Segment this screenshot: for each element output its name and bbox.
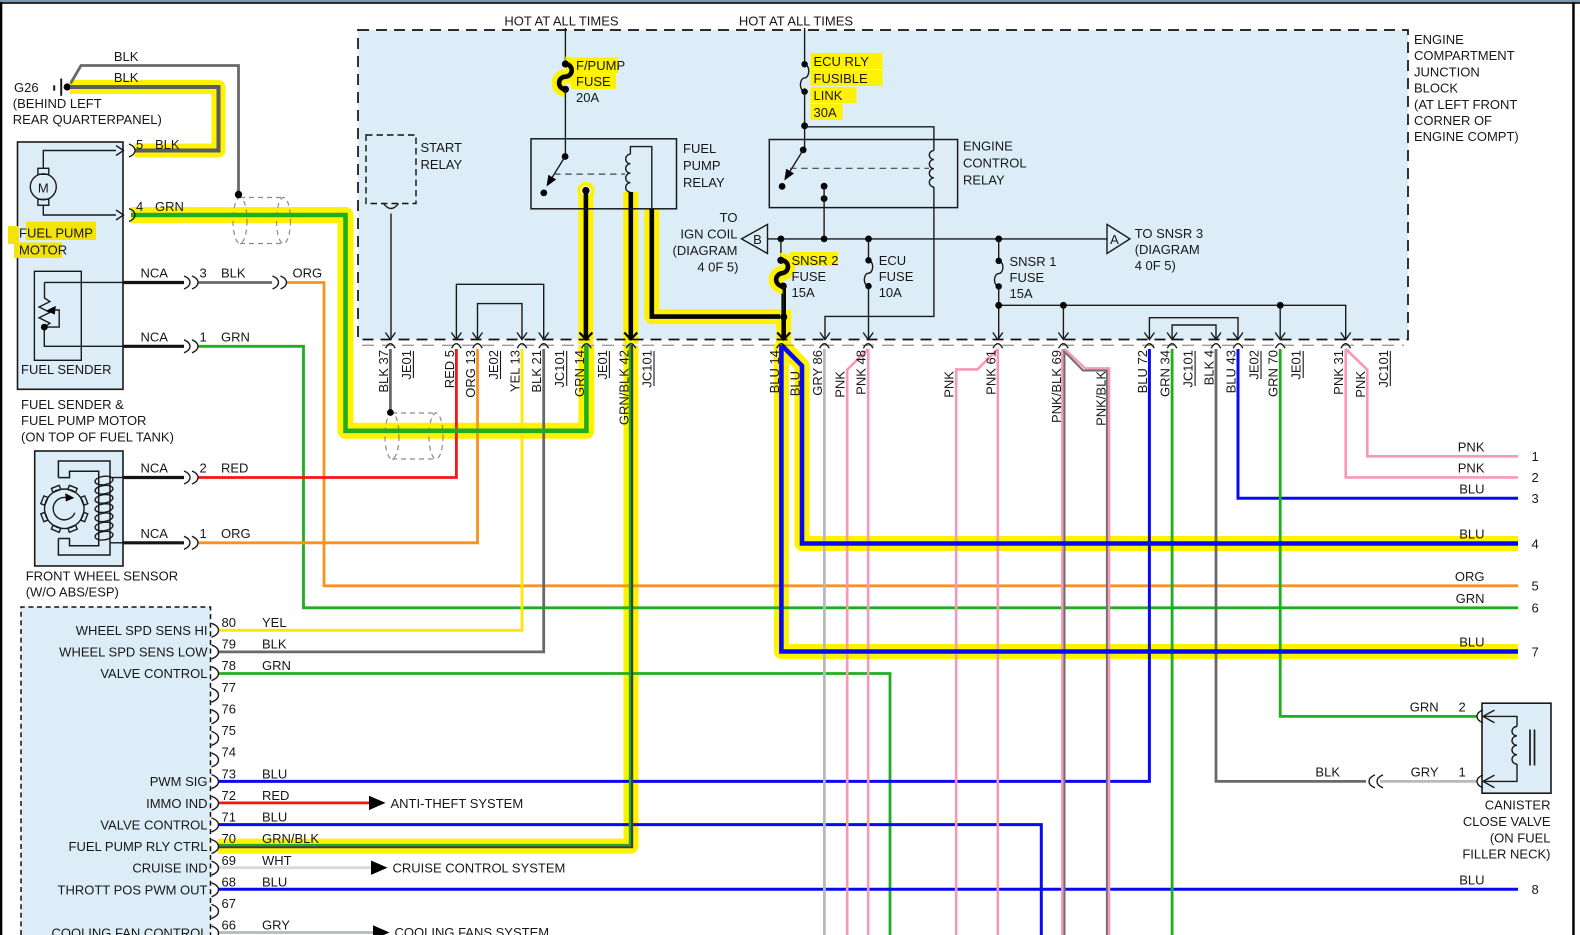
relay coil thick wire to connector 42 [628, 192, 633, 340]
svg-text:JE02: JE02 [486, 350, 501, 380]
BLU wire ECM pin68 to output 8 [218, 888, 1518, 891]
svg-text:JE01: JE01 [399, 350, 414, 380]
highlight text FUEL PUMP MOTOR [8, 226, 19, 244]
svg-text:PUMP: PUMP [683, 158, 721, 173]
svg-text:COOLING FAN CONTROL: COOLING FAN CONTROL [51, 926, 207, 935]
svg-text:(DIAGRAM: (DIAGRAM [1135, 242, 1200, 257]
svg-text:68: 68 [222, 874, 236, 889]
ECM pin 76 [212, 710, 219, 724]
GRY wire ECM pin66 to cooling arrow [218, 931, 373, 934]
svg-text:FUEL PUMP MOTOR: FUEL PUMP MOTOR [21, 413, 146, 428]
frame top border [0, 2, 1580, 4]
svg-text:BLU: BLU [788, 371, 803, 396]
fuel pump relay coil [626, 154, 631, 192]
svg-text:GRN: GRN [155, 199, 184, 214]
ECM pin 80 WHEEL SPD SENS HI [212, 623, 219, 637]
svg-text:BLU: BLU [1459, 873, 1484, 888]
svg-text:BLU 43: BLU 43 [1224, 350, 1239, 393]
svg-text:GRY 86: GRY 86 [810, 350, 825, 396]
svg-text:FUEL SENDER &: FUEL SENDER & [21, 397, 124, 412]
svg-text:ANTI-THEFT SYSTEM: ANTI-THEFT SYSTEM [391, 796, 524, 811]
BLU wire ECM pin73 to junction BLU72 [218, 349, 1149, 781]
svg-text:BLU 72: BLU 72 [1135, 350, 1150, 393]
svg-text:BLU: BLU [1459, 481, 1484, 496]
fuel pump relay box [531, 139, 677, 209]
jumper link ORG13 to YEL13 [478, 304, 523, 340]
svg-text:(ON TOP OF FUEL TANK): (ON TOP OF FUEL TANK) [21, 429, 174, 444]
svg-text:COMPARTMENT: COMPARTMENT [1414, 48, 1515, 63]
svg-text:F/PUMP: F/PUMP [576, 58, 625, 73]
svg-text:20A: 20A [576, 90, 599, 105]
svg-text:FUEL: FUEL [683, 141, 716, 156]
ECM pin 77 [212, 688, 219, 702]
svg-text:THROTT POS PWM OUT: THROTT POS PWM OUT [58, 882, 208, 897]
ORG wire NCA3 to output 5 [287, 283, 1518, 586]
gear rotation arc arrow [53, 497, 75, 519]
svg-text:(AT LEFT FRONT: (AT LEFT FRONT [1414, 97, 1517, 112]
pin 4 connector arc [129, 209, 135, 222]
node dot at SNSR2/relay feed junction [780, 313, 787, 320]
fuel sender NCA pin 3 stub [124, 281, 185, 284]
ECU FUSE 10A [868, 239, 870, 260]
svg-text:BLU: BLU [262, 874, 287, 889]
svg-text:JC101: JC101 [640, 350, 655, 388]
svg-text:GRY: GRY [1411, 765, 1439, 780]
jumper link RED5 to BLK21 [456, 284, 543, 340]
svg-text:4 0F 5): 4 0F 5) [697, 260, 738, 275]
svg-text:JC101: JC101 [552, 350, 567, 388]
ECM pin 73 PWM SIG [212, 775, 219, 789]
ECM pin 70 FUEL PUMP RLY CTRL [212, 840, 219, 854]
svg-text:TO: TO [720, 210, 738, 225]
svg-text:ENGINE: ENGINE [963, 139, 1013, 154]
svg-text:(W/O ABS/ESP): (W/O ABS/ESP) [26, 585, 119, 600]
PNK wire junction PNK48 down off page [867, 349, 870, 935]
harness grommet dashed ellipse pair A [233, 198, 247, 244]
gear notches [81, 512, 88, 521]
fuel pump relay switch [562, 153, 569, 160]
svg-text:FUSE: FUSE [1010, 270, 1045, 285]
fuel sender wiper dot [41, 324, 48, 331]
pin 5 connector arc [129, 144, 135, 157]
svg-text:TO SNSR 3: TO SNSR 3 [1135, 226, 1203, 241]
ECM box dashed border [21, 607, 211, 935]
svg-text:FUSIBLE: FUSIBLE [814, 71, 869, 86]
harness end dot [235, 191, 242, 198]
svg-text:GRN: GRN [221, 329, 250, 344]
wheel sensor NCA pin 2 stub [123, 476, 184, 479]
engine compartment junction block body [358, 30, 1408, 340]
svg-text:SNSR 1: SNSR 1 [1010, 254, 1057, 269]
svg-text:PNK/BLK: PNK/BLK [1094, 371, 1109, 426]
svg-text:BLK: BLK [155, 137, 180, 152]
svg-text:4: 4 [1532, 536, 1539, 551]
svg-text:MOTOR: MOTOR [19, 243, 67, 258]
wheel sensor wires to pins [110, 477, 123, 479]
svg-text:ENGINE: ENGINE [1414, 32, 1464, 47]
svg-text:ORG: ORG [1455, 569, 1485, 584]
svg-text:WHEEL SPD SENS LOW: WHEEL SPD SENS LOW [59, 645, 208, 660]
GRY wire inline connector to canister pin1 [1380, 780, 1477, 783]
svg-text:15A: 15A [1010, 286, 1033, 301]
svg-text:FUEL PUMP RLY CTRL: FUEL PUMP RLY CTRL [69, 839, 208, 854]
highlight relay coil wire GRN/BLK 42 branch [623, 192, 638, 344]
ECU RLY FUSIBLE LINK 30A [800, 64, 808, 91]
svg-text:COOLING FANS SYSTEM: COOLING FANS SYSTEM [395, 925, 550, 935]
fuel sender NCA pin 1 stub [124, 345, 185, 348]
svg-text:BLU 14: BLU 14 [767, 350, 782, 393]
ECM pin 71 VALVE CONTROL [212, 818, 219, 832]
ECM pin 68 THROTT POS PWM OUT [212, 883, 219, 897]
svg-text:PNK: PNK [1458, 440, 1485, 455]
highlight ring on relay output junction dot [577, 182, 594, 199]
svg-text:NCA: NCA [141, 266, 169, 281]
inline connector arcs [1369, 775, 1375, 788]
RED wire ECM pin72 to anti-theft arrow [218, 802, 369, 805]
svg-text:66: 66 [222, 918, 236, 933]
highlight text F/PUMP FUSE [572, 58, 618, 74]
GRN wire junction GRN70 to canister pin2 [1280, 349, 1477, 716]
canister valve coil [1482, 716, 1517, 726]
svg-text:(DIAGRAM: (DIAGRAM [673, 243, 738, 258]
front wheel sensor coil helix [95, 475, 114, 486]
ECM pin 69 CRUISE IND [212, 861, 219, 875]
svg-text:10A: 10A [879, 285, 902, 300]
start relay wire to BLK37 connector [390, 214, 392, 341]
svg-text:71: 71 [222, 810, 236, 825]
svg-text:CORNER OF: CORNER OF [1414, 113, 1492, 128]
front wheel sensor pole piece inner C [58, 471, 98, 545]
svg-text:IMMO IND: IMMO IND [146, 796, 207, 811]
GRN/BLK wire connector42 to ECM pin70 (traced) [218, 345, 630, 845]
wire fusible link down to ECR [804, 92, 806, 150]
svg-text:PNK: PNK [833, 371, 848, 398]
svg-text:FUSE: FUSE [576, 74, 611, 89]
svg-text:PNK: PNK [942, 371, 957, 398]
svg-text:FRONT WHEEL SENSOR: FRONT WHEEL SENSOR [26, 569, 178, 584]
start relay socket bump [384, 204, 399, 209]
highlight BLU branch wire to output 4 [781, 344, 1518, 544]
svg-text:30A: 30A [814, 105, 837, 120]
svg-text:NCA: NCA [141, 461, 169, 476]
highlight relay feed wire to SNSR2 node [652, 209, 784, 317]
svg-text:M: M [38, 180, 49, 195]
BLK wire G26 upper to harness dot [71, 66, 239, 195]
PNK branch wire of pin31 to output 1 [1346, 349, 1518, 456]
svg-text:VALVE CONTROL: VALVE CONTROL [100, 666, 207, 681]
fuel pump motor M symbol [30, 174, 56, 200]
svg-text:VALVE CONTROL: VALVE CONTROL [100, 817, 207, 832]
svg-text:ORG 13: ORG 13 [463, 350, 478, 398]
svg-text:GRN/BLK: GRN/BLK [262, 831, 319, 846]
svg-text:RED 5: RED 5 [442, 350, 457, 388]
svg-text:CANISTER: CANISTER [1485, 798, 1551, 813]
fuel sender resistor [39, 282, 50, 327]
jumper link GRN34 to BLK4 [1172, 325, 1216, 340]
svg-text:GRN/BLK 42: GRN/BLK 42 [617, 350, 632, 425]
svg-text:G26: G26 [14, 80, 39, 95]
svg-text:BLU: BLU [262, 810, 287, 825]
SNSR2 node to BLU14 connector thick wire [781, 288, 786, 340]
engine control relay coil [929, 151, 934, 187]
fuel sender internal wires to pins [45, 281, 124, 283]
canister valve core lines [1529, 730, 1531, 766]
BLU wire junction BLU43 to output 3 [1238, 349, 1518, 498]
feed wire hot1 to F/PUMP fuse [564, 28, 566, 64]
start relay dashed box [366, 135, 416, 204]
BLK ground wire pin5 to G26 (highlighted) [70, 87, 219, 151]
svg-text:JUNCTION: JUNCTION [1414, 64, 1480, 79]
svg-text:(ON FUEL: (ON FUEL [1490, 830, 1551, 845]
svg-text:2: 2 [1532, 470, 1539, 485]
svg-text:79: 79 [222, 637, 236, 652]
svg-text:ECU: ECU [879, 253, 906, 268]
svg-text:LINK: LINK [814, 88, 843, 103]
svg-text:BLOCK: BLOCK [1414, 81, 1458, 96]
highlight BLK ground wire pin5-G26 [70, 87, 219, 151]
svg-text:ORG: ORG [293, 266, 323, 281]
svg-text:75: 75 [222, 723, 236, 738]
svg-text:CONTROL: CONTROL [963, 156, 1027, 171]
front wheel sensor gear ring [45, 489, 85, 529]
svg-text:GRN 34: GRN 34 [1158, 350, 1173, 397]
svg-text:67: 67 [222, 896, 236, 911]
WHT wire ECM pin69 to cruise arrow [218, 866, 371, 869]
ECM pin 67 [212, 904, 219, 918]
PNK wire junction PNK31 to output 2 [1346, 349, 1518, 477]
canister pin1 connector [1477, 775, 1483, 788]
ground G26 symbol [53, 85, 55, 90]
B arrow to ign coil [742, 224, 768, 253]
svg-text:JE01: JE01 [595, 350, 610, 380]
svg-text:PNK/BLK 69: PNK/BLK 69 [1049, 350, 1064, 423]
svg-text:1: 1 [200, 526, 207, 541]
svg-text:YEL 13: YEL 13 [508, 350, 523, 392]
ECR second contact [821, 183, 828, 190]
svg-text:GRN: GRN [1456, 591, 1485, 606]
svg-text:GRN: GRN [262, 658, 291, 673]
svg-text:78: 78 [222, 658, 236, 673]
GRN wire junction GRN34 down off page [1171, 349, 1174, 935]
svg-text:RELAY: RELAY [683, 175, 725, 190]
svg-text:PNK 61: PNK 61 [983, 350, 998, 395]
BLK link wire NCA3 [199, 281, 273, 284]
anti-theft system arrow [369, 796, 386, 810]
PNK/BLK branch wire of pin69 [1063, 351, 1107, 935]
svg-text:3: 3 [1532, 491, 1539, 506]
svg-text:CRUISE CONTROL SYSTEM: CRUISE CONTROL SYSTEM [393, 861, 566, 876]
svg-text:WHT: WHT [262, 853, 292, 868]
GRN wire ECM pin78 down off page [218, 674, 890, 935]
svg-text:BLK: BLK [262, 637, 287, 652]
svg-text:HOT AT ALL TIMES: HOT AT ALL TIMES [739, 14, 853, 29]
svg-text:REAR QUARTERPANEL): REAR QUARTERPANEL) [13, 112, 162, 127]
svg-text:B: B [753, 232, 762, 247]
svg-text:GRY: GRY [262, 918, 290, 933]
svg-text:FUEL SENDER: FUEL SENDER [21, 362, 112, 377]
PNK wire junction PNK61 down off page [996, 349, 999, 935]
svg-text:RELAY: RELAY [421, 157, 463, 172]
svg-text:80: 80 [222, 615, 236, 630]
fuel pump motor / fuel sender box body [18, 142, 124, 389]
fuel pump relay switch output thick wire [584, 191, 589, 340]
svg-text:FUEL PUMP: FUEL PUMP [19, 226, 93, 241]
svg-text:7: 7 [1532, 644, 1539, 659]
engine control relay switch [800, 147, 807, 154]
GRN wire pin4 to GRN14 connector (traced) [131, 215, 586, 431]
ECR top rail to coil [805, 127, 934, 151]
pin4 arrowhead [116, 210, 124, 220]
highlight fuel pump relay switch output wire [578, 191, 593, 344]
front wheel sensor pole piece outer C [58, 461, 110, 555]
svg-text:77: 77 [222, 680, 236, 695]
fuel sender inner box [34, 271, 81, 360]
svg-text:76: 76 [222, 701, 236, 716]
feed wire hot2 to fusible link [804, 28, 806, 64]
svg-text:15A: 15A [792, 285, 815, 300]
ECM connector box body [21, 607, 211, 935]
frame right border [1572, 2, 1575, 935]
svg-text:PNK 31: PNK 31 [1331, 350, 1346, 395]
svg-text:PWM SIG: PWM SIG [150, 774, 208, 789]
wire fuse to relay switch [564, 89, 566, 156]
svg-text:CLOSE VALVE: CLOSE VALVE [1463, 814, 1551, 829]
canister pin2 connector [1477, 710, 1483, 723]
svg-text:YEL: YEL [262, 615, 287, 630]
cooling fans system arrow [373, 925, 390, 935]
PNK branch wire of pin48 [847, 349, 868, 935]
node rail drop to pin69 [1062, 305, 1064, 340]
highlight SNSR2 node feed to BLU14 connector [776, 310, 791, 345]
svg-text:PNK: PNK [1353, 371, 1368, 398]
cruise control system arrow [371, 861, 388, 875]
svg-text:A: A [1110, 232, 1119, 247]
highlight text SNSR 2 [790, 252, 838, 266]
SNSR 1 FUSE 15A [998, 239, 1000, 261]
svg-text:5: 5 [136, 137, 143, 152]
A arrow to SNSR 3 [1107, 224, 1130, 253]
relay feed thick wire to SNSR2 node [652, 209, 780, 317]
svg-text:4: 4 [136, 199, 143, 214]
svg-text:GRN 70: GRN 70 [1266, 350, 1281, 397]
BLU wire ECM pin71 down off page [218, 825, 1041, 935]
svg-text:CRUISE IND: CRUISE IND [132, 861, 207, 876]
svg-text:8: 8 [1532, 882, 1539, 897]
ECM pin 74 [212, 753, 219, 767]
svg-text:START: START [421, 140, 462, 155]
svg-text:JE02: JE02 [1247, 350, 1262, 380]
PNK/BLK wire junction pin69 down off page [1061, 349, 1063, 935]
svg-text:PNK: PNK [1458, 461, 1485, 476]
RED wire junction RED5 to wheel sensor NCA2 [199, 349, 457, 478]
svg-text:BLU: BLU [1459, 527, 1484, 542]
svg-text:JC101: JC101 [1376, 350, 1391, 388]
svg-text:JE01: JE01 [1289, 350, 1304, 380]
svg-text:PNK 48: PNK 48 [854, 350, 869, 395]
svg-text:RELAY: RELAY [963, 173, 1005, 188]
svg-text:SNSR 2: SNSR 2 [792, 253, 839, 268]
svg-text:BLK 37: BLK 37 [376, 350, 391, 393]
svg-text:BLK: BLK [114, 49, 139, 64]
svg-text:JC101: JC101 [1181, 350, 1196, 388]
pin5 arrowhead [116, 146, 124, 156]
BLK wire ECM pin79 to junction BLK21 [218, 349, 544, 652]
jumper link BLU72 to BLU43 [1149, 318, 1238, 340]
svg-text:FUSE: FUSE [879, 269, 914, 284]
BLK wire junction BLK4 to canister inline connector [1216, 349, 1366, 781]
ECM pin 78 VALVE CONTROL [212, 667, 219, 681]
ECM pin 72 IMMO IND [212, 796, 219, 810]
relay coil top feed [630, 147, 651, 209]
node dots on B line [778, 236, 785, 243]
svg-text:BLU: BLU [1459, 635, 1484, 650]
SNSR 2 FUSE 15A (highlighted fuse) [780, 239, 782, 260]
BLU traced wire to output 7 [781, 345, 1518, 652]
engine control relay box [769, 140, 957, 208]
svg-text:1: 1 [200, 329, 207, 344]
svg-text:6: 6 [1532, 601, 1539, 616]
canister close valve box body [1482, 703, 1551, 793]
svg-text:72: 72 [222, 788, 236, 803]
node rail drop to pin70 [1279, 305, 1281, 340]
svg-text:1: 1 [1459, 765, 1466, 780]
svg-text:70: 70 [222, 831, 236, 846]
ECM pin 66 COOLING FAN CONTROL [212, 926, 219, 935]
ECR actuation dashed link [790, 167, 929, 169]
motor to pin4 wire [43, 205, 116, 215]
GRY wire junction GRY86 down off page [823, 349, 826, 935]
PNK branch wire of pin61 [956, 349, 998, 935]
svg-text:5: 5 [1532, 579, 1539, 594]
BLU traced branch wire to output 4 [781, 345, 1518, 544]
motor to pin5 wire [43, 151, 116, 169]
svg-text:ECU RLY: ECU RLY [814, 54, 870, 69]
ORG wire junction ORG13 to wheel sensor NCA1 [199, 349, 478, 543]
svg-text:69: 69 [222, 853, 236, 868]
highlight GRN/BLK wire to ECM pin 70 [218, 345, 631, 846]
highlight text ECU RLY FUSIBLE LINK 30A [811, 53, 883, 69]
svg-text:BLK 21: BLK 21 [529, 350, 544, 393]
highlight GRN wire pin4 to GRN14 connector [131, 215, 586, 431]
svg-text:(BEHIND LEFT: (BEHIND LEFT [13, 96, 102, 111]
ECM pin 79 WHEEL SPD SENS LOW [212, 645, 219, 659]
svg-text:ENGINE COMPT): ENGINE COMPT) [1414, 129, 1519, 144]
svg-text:GRN: GRN [1410, 700, 1439, 715]
svg-text:RED: RED [221, 461, 248, 476]
fuel pump relay actuation dashed link [554, 173, 625, 175]
svg-text:73: 73 [222, 766, 236, 781]
svg-text:WHEEL SPD SENS HI: WHEEL SPD SENS HI [76, 623, 208, 638]
GRN wire fuel sender NCA1 to output 6 [199, 346, 1519, 608]
svg-text:BLK: BLK [1315, 765, 1340, 780]
svg-text:NCA: NCA [141, 526, 169, 541]
svg-text:BLK 4: BLK 4 [1202, 350, 1217, 385]
svg-text:2: 2 [1459, 700, 1466, 715]
svg-text:1: 1 [1532, 449, 1539, 464]
page frame top bar [0, 0, 1580, 2]
svg-text:BLK: BLK [221, 266, 246, 281]
svg-text:BLK: BLK [114, 70, 139, 85]
svg-text:NCA: NCA [141, 329, 169, 344]
BLK37 wire below connector to harness dot [389, 349, 392, 413]
frame left border [0, 2, 2, 935]
junction block dashed border [358, 30, 1408, 340]
svg-text:RED: RED [262, 788, 289, 803]
B node line [768, 238, 1108, 240]
svg-text:FILLER NECK): FILLER NECK) [1462, 847, 1550, 862]
ECM pin 75 [212, 731, 219, 745]
svg-text:BLU: BLU [262, 766, 287, 781]
